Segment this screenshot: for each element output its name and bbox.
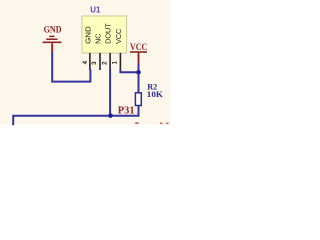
svg-text:1: 1 <box>112 60 119 64</box>
pin 3 stub <box>99 53 101 70</box>
svg-text:GND: GND <box>83 26 92 44</box>
border dash a <box>135 122 139 124</box>
pin 4 stub <box>89 53 91 70</box>
svg-text:4: 4 <box>82 60 89 64</box>
junction VCC net <box>136 70 141 75</box>
VCC stub <box>138 53 140 64</box>
svg-text:3: 3 <box>91 61 98 65</box>
schematic sheet background <box>0 0 171 124</box>
pin 2 stub <box>109 53 111 70</box>
ground symbol bar 3 <box>43 42 62 44</box>
wire P31 net horizontal <box>13 116 137 125</box>
resistor R2 body <box>135 93 141 106</box>
pin 1 stub <box>119 53 121 70</box>
svg-text:10K: 10K <box>147 89 163 99</box>
svg-text:NC: NC <box>94 33 103 44</box>
border dash c <box>166 123 169 125</box>
wire VCC vertical to R2 <box>138 63 140 93</box>
svg-text:GND: GND <box>44 26 62 36</box>
ground symbol bar 1 <box>49 36 54 38</box>
ground symbol stub <box>51 43 53 52</box>
border dash b <box>160 123 163 125</box>
svg-text:U1: U1 <box>90 5 100 15</box>
wire DOUT drop <box>109 70 111 116</box>
svg-text:2: 2 <box>101 61 108 65</box>
wire GND net <box>52 52 90 82</box>
wire R2 bottom lead <box>138 106 140 117</box>
op-amp U1 component body <box>82 16 127 53</box>
ground symbol bar 2 <box>46 39 57 41</box>
wire pin1 to VCC net <box>120 70 138 73</box>
junction P31 net <box>108 113 113 118</box>
svg-text:P31: P31 <box>118 106 135 117</box>
svg-text:DOUT: DOUT <box>104 23 113 44</box>
VCC bar <box>130 51 147 53</box>
svg-text:VCC: VCC <box>114 28 123 44</box>
